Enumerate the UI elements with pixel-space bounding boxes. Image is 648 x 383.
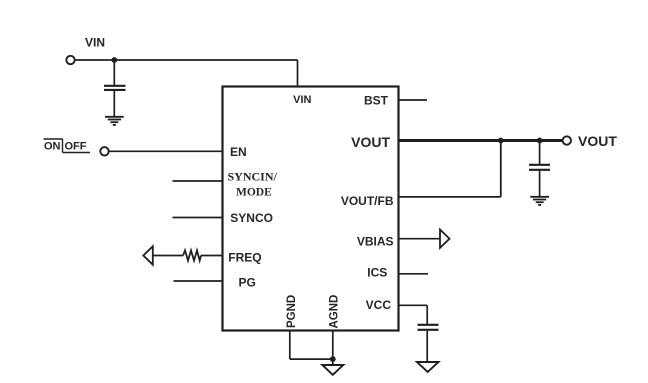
wire BST stub xyxy=(399,99,428,101)
capacitor C3 (VCC cap) xyxy=(418,324,439,326)
wire cap C1 top lead xyxy=(113,60,115,85)
svg-text:VIN: VIN xyxy=(293,94,311,106)
svg-text:EN: EN xyxy=(230,145,247,159)
wire VCC drop to cap xyxy=(426,305,428,324)
ground triangle under C3 xyxy=(417,362,439,372)
wire SYNCO stub xyxy=(173,217,223,219)
svg-text:VOUT/FB: VOUT/FB xyxy=(341,194,394,208)
capacitor C2 (output cap) xyxy=(529,164,550,166)
wire VOUT/FB vertical xyxy=(500,141,502,197)
wire ICS stub xyxy=(399,273,429,275)
wire VIN horizontal xyxy=(75,59,298,61)
capacitor C1 (input cap) xyxy=(104,85,126,87)
wire cap C2 top lead xyxy=(539,141,541,165)
ground triangle under AGND xyxy=(322,365,343,375)
op-amp U1 (converter IC body) xyxy=(223,87,399,331)
node junction dot at VIN cap xyxy=(111,57,117,63)
wire PGND drop xyxy=(289,331,291,360)
svg-text:FREQ: FREQ xyxy=(228,250,261,264)
svg-text:SYNCIN/: SYNCIN/ xyxy=(228,170,278,184)
ground earth symbol under C1 xyxy=(105,117,124,125)
node ON/OFF label xyxy=(44,139,91,153)
svg-text:MODE: MODE xyxy=(236,186,272,198)
svg-text:ON: ON xyxy=(44,141,61,153)
svg-text:VOUT: VOUT xyxy=(578,133,617,149)
svg-text:VBIAS: VBIAS xyxy=(357,234,394,248)
wire PGND to AGND horizontal xyxy=(290,358,333,360)
wire VCC horizontal xyxy=(399,304,428,306)
node junction dot PGND/AGND xyxy=(330,356,336,362)
node junction dot VOUT/FB tap xyxy=(498,138,504,144)
svg-text:VIN: VIN xyxy=(85,36,105,50)
wire SYNCIN/MODE stub xyxy=(173,180,223,182)
arrow right open triangle at VBIAS xyxy=(440,230,450,248)
svg-text:VOUT: VOUT xyxy=(351,134,390,150)
wire VBIAS xyxy=(399,238,441,240)
wire AGND drop xyxy=(332,331,334,366)
ground earth symbol under C2 xyxy=(530,197,549,205)
svg-text:PGND: PGND xyxy=(286,295,298,328)
wire VOUT thick xyxy=(399,139,563,142)
node VIN terminal circle xyxy=(66,56,74,64)
wire PG stub xyxy=(174,280,223,282)
node junction dot VOUT cap tap xyxy=(537,138,543,144)
wire cap C3 bottom lead xyxy=(426,331,428,362)
wire cap C1 bottom lead xyxy=(113,91,115,116)
svg-text:OFF: OFF xyxy=(65,141,87,153)
wire cap C2 bottom lead xyxy=(539,171,541,196)
svg-text:SYNCO: SYNCO xyxy=(230,211,273,225)
wire FREQ right segment xyxy=(201,255,223,257)
resistor R1 (FREQ) xyxy=(183,250,201,260)
svg-text:PG: PG xyxy=(239,275,256,289)
svg-text:BST: BST xyxy=(364,94,389,108)
node VOUT terminal circle xyxy=(563,136,571,144)
arrow left open triangle at FREQ xyxy=(143,246,153,264)
wire VIN drop to IC top xyxy=(297,60,299,87)
wire EN xyxy=(109,150,223,152)
wire FREQ left segment xyxy=(153,255,183,257)
svg-text:ICS: ICS xyxy=(367,265,387,279)
node EN terminal circle xyxy=(100,147,108,155)
svg-text:VCC: VCC xyxy=(366,298,392,312)
svg-text:AGND: AGND xyxy=(329,295,341,329)
wire VOUT/FB horizontal xyxy=(399,196,501,198)
